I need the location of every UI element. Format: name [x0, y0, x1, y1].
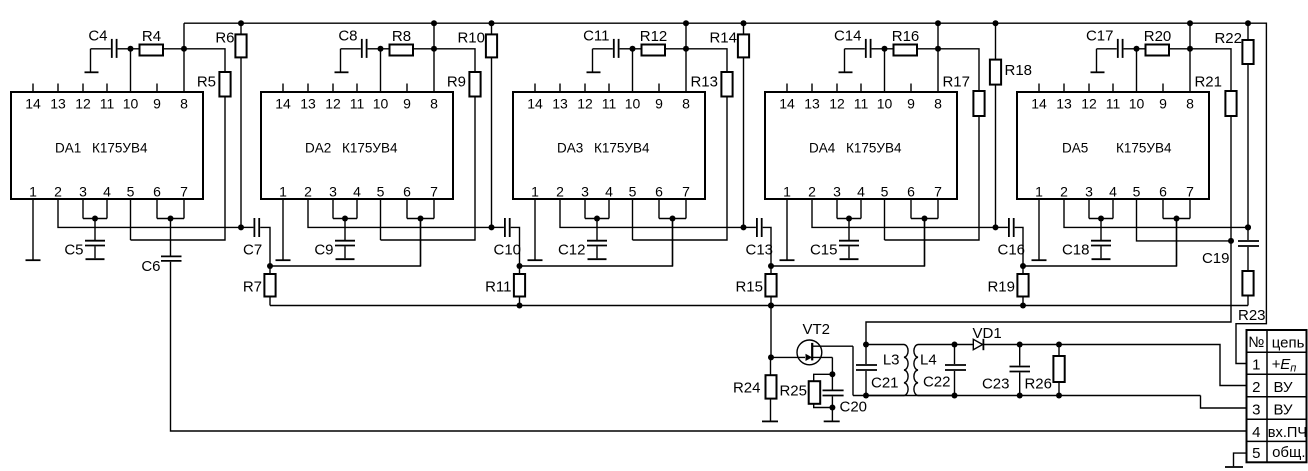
svg-text:13: 13	[1056, 96, 1072, 112]
capacitor C12	[558, 219, 607, 259]
capacitor C9	[314, 219, 355, 259]
svg-text:11: 11	[350, 96, 365, 112]
junction	[829, 405, 835, 411]
svg-text:№: №	[1248, 334, 1264, 351]
junction	[92, 216, 98, 222]
wire pin1 DA1	[32, 199, 34, 260]
svg-text:R25: R25	[779, 382, 807, 399]
capacitor C19	[1202, 227, 1259, 271]
wire pin 8 to rail	[1189, 23, 1191, 92]
junction	[670, 216, 676, 222]
svg-text:ВУ: ВУ	[1274, 401, 1294, 418]
wire pins 3,4 DA3	[585, 199, 609, 219]
op-amp IC DA3 К175УВ4	[513, 84, 705, 200]
connector XS1 table	[1247, 330, 1308, 462]
svg-text:12: 12	[325, 96, 341, 112]
svg-text:9: 9	[655, 96, 663, 112]
capacitor C17	[1086, 28, 1123, 72]
svg-text:10: 10	[877, 96, 893, 112]
node pin8 DA4	[935, 46, 941, 52]
svg-text:К175УВ4: К175УВ4	[1116, 141, 1172, 156]
wire pin 8 to rail	[937, 23, 939, 92]
junction rail	[1245, 20, 1251, 26]
capacitor C15	[810, 219, 859, 259]
junction rail	[993, 20, 999, 26]
wire pin 8 to rail	[433, 23, 435, 92]
ground	[276, 259, 291, 261]
svg-text:13: 13	[300, 96, 316, 112]
junction rail	[741, 20, 747, 26]
svg-text:C5: C5	[64, 242, 83, 259]
junction	[431, 20, 437, 26]
ground	[336, 258, 355, 260]
svg-text:1: 1	[1035, 184, 1043, 200]
svg-text:R16: R16	[892, 28, 920, 45]
svg-text:11: 11	[602, 96, 617, 112]
svg-text:4: 4	[353, 184, 361, 200]
svg-text:6: 6	[1159, 184, 1167, 200]
node output DA1	[238, 224, 244, 230]
svg-text:L3: L3	[883, 352, 900, 369]
wire to input of next stage	[270, 219, 421, 267]
svg-text:VD1: VD1	[973, 325, 1002, 342]
junction rail	[489, 20, 495, 26]
resistor R25	[779, 374, 832, 407]
svg-text:9: 9	[907, 96, 915, 112]
svg-text:1: 1	[531, 184, 539, 200]
wire	[620, 49, 633, 92]
capacitor C20	[823, 374, 868, 420]
junction	[168, 216, 174, 222]
capacitor C22	[923, 345, 966, 396]
svg-text:R5: R5	[197, 74, 216, 91]
svg-text:5: 5	[377, 184, 385, 200]
resistor R21	[1137, 49, 1237, 241]
svg-text:12: 12	[75, 96, 91, 112]
resistor R4	[131, 28, 185, 56]
svg-text:5: 5	[881, 184, 889, 200]
svg-text:2: 2	[54, 184, 62, 200]
wire pin2 DA3 output	[560, 199, 744, 227]
svg-text:3: 3	[581, 184, 589, 200]
svg-text:13: 13	[552, 96, 568, 112]
svg-text:C13: C13	[746, 242, 774, 259]
resistor R8	[381, 28, 435, 56]
wire pin1 DA3	[534, 199, 536, 260]
ground	[588, 258, 607, 260]
op-amp IC DA4 К175УВ4	[765, 84, 957, 200]
svg-text:R15: R15	[735, 279, 763, 296]
svg-text:C8: C8	[338, 28, 357, 45]
capacitor C6	[141, 219, 181, 276]
svg-text:8: 8	[1186, 96, 1194, 112]
svg-text:VT2: VT2	[803, 321, 831, 338]
junction	[1017, 393, 1023, 399]
svg-text:C22: C22	[923, 374, 951, 391]
wire detector output	[983, 345, 1247, 386]
capacitor C18	[1062, 219, 1111, 259]
junction	[768, 303, 774, 309]
svg-text:R26: R26	[1024, 376, 1052, 393]
svg-text:6: 6	[403, 184, 411, 200]
resistor R9	[381, 49, 481, 240]
svg-text:R19: R19	[987, 279, 1015, 296]
resistor R17	[885, 49, 985, 240]
ground	[1091, 71, 1105, 73]
svg-text:R12: R12	[640, 28, 668, 45]
svg-text:8: 8	[430, 96, 438, 112]
ground	[762, 420, 778, 422]
node pin8 DA2	[431, 46, 437, 52]
svg-text:R24: R24	[733, 379, 761, 396]
svg-text:14: 14	[1031, 96, 1047, 112]
svg-text:R17: R17	[942, 74, 970, 91]
capacitor C16	[996, 218, 1026, 266]
svg-text:7: 7	[430, 184, 438, 200]
svg-text:10: 10	[1129, 96, 1145, 112]
junction	[1056, 393, 1062, 399]
wire	[955, 344, 974, 346]
svg-text:DA4: DA4	[809, 141, 836, 156]
node output DA4	[993, 224, 999, 230]
svg-text:4: 4	[103, 184, 111, 200]
junction	[863, 393, 869, 399]
svg-text:К175УВ4: К175УВ4	[92, 141, 148, 156]
svg-text:4: 4	[1109, 184, 1117, 200]
resistor R7	[243, 266, 276, 306]
svg-text:К175УВ4: К175УВ4	[594, 141, 650, 156]
junction	[418, 216, 424, 222]
ground	[85, 71, 99, 73]
junction	[683, 20, 689, 26]
junction	[517, 303, 523, 309]
wire to ВУ pin 3	[1201, 396, 1248, 409]
svg-text:2: 2	[1060, 184, 1068, 200]
svg-text:13: 13	[804, 96, 820, 112]
capacitor C5	[64, 219, 105, 259]
wire	[1124, 49, 1137, 92]
resistor R11	[485, 266, 525, 306]
wire pin2 DA2 output	[308, 199, 492, 227]
junction	[935, 20, 941, 26]
svg-text:R13: R13	[690, 74, 718, 91]
svg-text:14: 14	[779, 96, 795, 112]
ground	[824, 420, 840, 422]
resistor R19	[987, 266, 1028, 306]
wire pin1 DA2	[282, 199, 284, 260]
junction	[829, 371, 835, 377]
node output DA3	[741, 224, 747, 230]
wire to input of next stage	[1023, 219, 1177, 267]
svg-text:К175УВ4: К175УВ4	[846, 141, 902, 156]
svg-text:R6: R6	[215, 30, 234, 47]
node pin10 DA2	[378, 46, 384, 52]
svg-text:11: 11	[100, 96, 115, 112]
svg-text:3: 3	[79, 184, 87, 200]
junction rail	[238, 20, 244, 26]
node pin8 DA5	[1187, 46, 1193, 52]
resistor R22	[1214, 23, 1253, 227]
svg-text:DA2: DA2	[305, 141, 331, 156]
svg-text:R7: R7	[243, 279, 262, 296]
svg-text:R18: R18	[1005, 62, 1033, 79]
svg-text:1: 1	[1252, 357, 1260, 374]
op-amp IC DA1 К175УВ4	[11, 84, 203, 200]
wire pin 8 to rail	[685, 23, 687, 92]
junction	[846, 216, 852, 222]
wire pin1 DA5	[1038, 199, 1040, 260]
capacitor C10	[492, 218, 522, 266]
wire +E supply rail	[184, 23, 1266, 363]
wire	[368, 49, 381, 92]
resistor R12	[633, 28, 687, 56]
svg-text:11: 11	[1106, 96, 1121, 112]
svg-text:12: 12	[1081, 96, 1097, 112]
resistor R15	[735, 266, 776, 306]
wire	[771, 356, 805, 358]
inductor L3	[866, 345, 908, 396]
junction	[594, 216, 600, 222]
junction	[1056, 342, 1062, 348]
node pin10 DA1	[128, 46, 134, 52]
svg-text:14: 14	[275, 96, 291, 112]
wire общ.	[1234, 453, 1248, 466]
svg-text:C17: C17	[1086, 28, 1114, 45]
svg-text:2: 2	[304, 184, 312, 200]
node output DA5	[1245, 224, 1251, 230]
ground	[587, 71, 601, 73]
junction	[768, 354, 774, 360]
svg-text:R4: R4	[142, 28, 161, 45]
wire pins 3,4 DA5	[1089, 199, 1113, 219]
wire bottom rail	[270, 305, 1248, 307]
wire to input of next stage	[520, 219, 673, 267]
svg-text:6: 6	[153, 184, 161, 200]
ground	[1225, 466, 1243, 468]
node pin10 DA5	[1134, 46, 1140, 52]
junction	[1020, 303, 1026, 309]
resistor R10	[457, 23, 497, 227]
junction	[1174, 216, 1180, 222]
svg-text:C19: C19	[1202, 250, 1230, 267]
junction	[517, 263, 523, 269]
svg-text:2: 2	[808, 184, 816, 200]
svg-text:7: 7	[180, 184, 188, 200]
wire R15 to VT2 base	[770, 306, 772, 358]
svg-text:13: 13	[50, 96, 66, 112]
svg-text:DA1: DA1	[55, 141, 81, 156]
junction	[863, 342, 869, 348]
svg-text:R23: R23	[1238, 307, 1266, 324]
wire pins 6,7 DA2	[407, 199, 434, 219]
capacitor C23	[982, 345, 1030, 396]
junction	[342, 216, 348, 222]
svg-text:R14: R14	[709, 30, 737, 47]
svg-text:R11: R11	[485, 279, 511, 296]
svg-text:цепь: цепь	[1272, 335, 1305, 352]
capacitor C8	[338, 28, 366, 72]
svg-text:10: 10	[123, 96, 139, 112]
svg-text:DA5: DA5	[1062, 141, 1088, 156]
svg-text:1: 1	[783, 184, 791, 200]
junction	[952, 393, 958, 399]
svg-text:12: 12	[829, 96, 845, 112]
capacitor C7	[241, 218, 270, 266]
ground	[1092, 258, 1111, 260]
op-amp IC DA5 К175УВ4	[1017, 84, 1209, 200]
inductor L4	[914, 345, 955, 396]
svg-text:3: 3	[1252, 401, 1260, 418]
capacitor C4	[88, 28, 116, 72]
svg-text:11: 11	[854, 96, 869, 112]
svg-text:C4: C4	[88, 28, 107, 45]
resistor R13	[633, 49, 733, 240]
svg-text:14: 14	[25, 96, 41, 112]
resistor R20	[1137, 28, 1191, 56]
svg-text:6: 6	[907, 184, 915, 200]
capacitor C11	[583, 28, 619, 72]
wire	[872, 49, 885, 92]
svg-text:5: 5	[1133, 184, 1141, 200]
resistor R18	[990, 23, 1032, 227]
wire pins 3,4 DA1	[83, 199, 107, 219]
svg-text:DA3: DA3	[557, 141, 583, 156]
svg-text:4: 4	[857, 184, 865, 200]
svg-text:L4: L4	[920, 352, 937, 369]
resistor R26	[1024, 345, 1064, 396]
svg-text:К175УВ4: К175УВ4	[342, 141, 398, 156]
ground	[528, 259, 543, 261]
svg-text:7: 7	[1186, 184, 1194, 200]
junction	[1020, 263, 1026, 269]
svg-text:C23: C23	[982, 376, 1010, 393]
svg-text:C14: C14	[834, 28, 862, 45]
wire	[118, 49, 131, 92]
svg-text:7: 7	[934, 184, 942, 200]
svg-text:7: 7	[682, 184, 690, 200]
node pin10 DA4	[882, 46, 888, 52]
wire tank bottom line	[853, 395, 1201, 397]
wire pin2 DA1 output	[58, 199, 241, 227]
resistor R16	[885, 28, 939, 56]
svg-text:4: 4	[1252, 424, 1260, 441]
junction	[768, 263, 774, 269]
node pin8 DA3	[683, 46, 689, 52]
svg-text:6: 6	[655, 184, 663, 200]
ground	[335, 71, 349, 73]
svg-text:9: 9	[403, 96, 411, 112]
wire input DA3	[672, 219, 674, 267]
wire pin2 DA5 output	[1064, 199, 1248, 227]
wire pins 3,4 DA4	[837, 199, 861, 219]
wire pins 6,7 DA4	[911, 199, 938, 219]
svg-text:R10: R10	[457, 30, 485, 47]
junction	[952, 342, 958, 348]
junction	[1098, 216, 1104, 222]
svg-text:R8: R8	[392, 28, 411, 45]
svg-text:8: 8	[682, 96, 690, 112]
svg-text:R21: R21	[1194, 74, 1222, 91]
svg-text:вх.ПЧ: вх.ПЧ	[1268, 425, 1307, 441]
wire input DA5	[1176, 219, 1178, 267]
capacitor C13	[744, 218, 774, 266]
wire input DA4	[924, 219, 926, 267]
wire pin 8 to rail	[183, 23, 185, 92]
node output DA2	[489, 224, 495, 230]
wire pin1 DA4	[786, 199, 788, 260]
resistor R5	[131, 49, 231, 240]
svg-text:2: 2	[1252, 379, 1260, 396]
diode VD1	[973, 325, 1002, 350]
svg-text:R20: R20	[1144, 28, 1172, 45]
svg-text:C6: C6	[141, 258, 160, 275]
wire pin2 DA4 output	[812, 199, 996, 227]
svg-text:12: 12	[577, 96, 593, 112]
ground	[780, 259, 795, 261]
svg-text:R22: R22	[1214, 30, 1242, 47]
junction	[1017, 342, 1023, 348]
resistor R6	[215, 23, 246, 227]
svg-text:8: 8	[934, 96, 942, 112]
junction	[768, 303, 774, 309]
svg-text:C7: C7	[243, 242, 262, 259]
svg-text:14: 14	[527, 96, 543, 112]
svg-text:C15: C15	[810, 242, 838, 259]
capacitor C14	[834, 28, 871, 72]
svg-text:3: 3	[833, 184, 841, 200]
node pin10 DA3	[630, 46, 636, 52]
svg-text:C10: C10	[494, 242, 522, 259]
svg-text:C20: C20	[840, 399, 868, 416]
resistor R24	[733, 357, 777, 420]
wire pins 3,4 DA2	[333, 199, 357, 219]
resistor R14	[709, 23, 749, 227]
svg-text:5: 5	[629, 184, 637, 200]
svg-text:5: 5	[127, 184, 135, 200]
svg-text:R9: R9	[447, 74, 466, 91]
wire pins 6,7 DA5	[1163, 199, 1190, 219]
wire R21 node to tank	[866, 241, 1231, 345]
resistor R23	[1238, 271, 1266, 324]
ground	[26, 259, 41, 261]
junction	[267, 263, 273, 269]
svg-text:1: 1	[29, 184, 37, 200]
ground	[1032, 259, 1047, 261]
svg-text:5: 5	[1252, 445, 1260, 462]
transistor VT2	[797, 321, 853, 396]
junction	[922, 216, 928, 222]
svg-text:C21: C21	[871, 375, 899, 392]
svg-text:C12: C12	[558, 242, 586, 259]
svg-text:10: 10	[373, 96, 389, 112]
svg-text:9: 9	[1159, 96, 1167, 112]
wire to input of next stage	[771, 219, 925, 267]
ground	[839, 71, 853, 73]
svg-text:1: 1	[279, 184, 287, 200]
junction	[1187, 20, 1193, 26]
ground	[86, 258, 105, 260]
capacitor C21	[856, 345, 899, 396]
svg-text:C16: C16	[998, 242, 1026, 259]
op-amp IC DA2 К175УВ4	[261, 84, 453, 200]
node pin8 DA1	[181, 46, 187, 52]
ground	[840, 258, 859, 260]
svg-text:C11: C11	[583, 28, 609, 45]
wire input DA2	[420, 219, 422, 267]
svg-text:общ.: общ.	[1272, 444, 1305, 461]
svg-text:ВУ: ВУ	[1274, 379, 1294, 396]
svg-text:9: 9	[153, 96, 161, 112]
